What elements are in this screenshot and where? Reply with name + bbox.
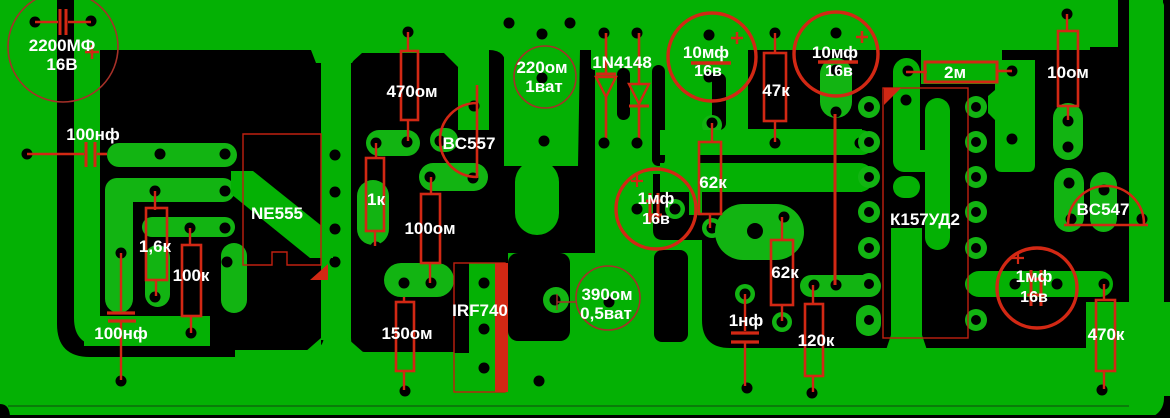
svg-text:10мф: 10мф [683, 43, 729, 62]
wire R12 lead [557, 301, 576, 303]
IRF740 pad column [469, 263, 502, 392]
10mf cap column trace [820, 58, 852, 118]
svg-text:150ом: 150ом [381, 324, 432, 343]
BC557 pad e trace [430, 128, 458, 152]
wire R4 top lead [375, 143, 377, 159]
diode D2 cathode bar [629, 105, 649, 108]
pad hole on pour at 509,23 [504, 18, 515, 29]
trace between 100om and 150om [384, 263, 454, 297]
capacitor C6 1mf outline [616, 169, 696, 249]
svg-text:62к: 62к [771, 263, 799, 282]
pad hole on pour at 539,381 [534, 376, 545, 387]
plus mark C5 [856, 31, 868, 43]
pad hole 1mf right [670, 204, 681, 215]
transistor Q2 IRF740 outline [454, 263, 505, 392]
pad hole 1.6k bottom [150, 292, 161, 303]
wire R8 top lead [774, 33, 776, 54]
wire R13 right lead [997, 70, 1012, 73]
wire C1 left lead [35, 21, 58, 23]
pad hole on pour at 35,22 [30, 17, 41, 28]
resistor R15 470k body [1096, 300, 1115, 371]
etched slot right of diode D2 [652, 65, 665, 166]
svg-text:47к: 47к [762, 81, 790, 100]
pad hole 10om bottom 2 [1063, 142, 1074, 153]
diode D2 triangle [629, 84, 649, 104]
pad hole row right [866, 280, 877, 291]
trace row above 120k [800, 275, 881, 297]
plus mark C4 [731, 32, 743, 44]
wire C7 top lead [744, 294, 746, 331]
svg-text:10мф: 10мф [812, 43, 858, 62]
K157UD2 right pad 2 [965, 131, 987, 153]
IRF740 pad 2 [479, 324, 490, 335]
pad hole 1k bottom [371, 242, 382, 253]
pad hole on pour at 836,33 [831, 28, 842, 39]
K157UD2 right pad 4 [965, 201, 987, 223]
R12 lead mark [556, 294, 558, 310]
wire R5 top lead [430, 177, 432, 195]
pad disc 62k top [702, 115, 722, 135]
wire R14 bottom lead [1067, 106, 1069, 120]
wire R9 bottom lead [709, 214, 711, 228]
wire R5 bottom lead [429, 263, 431, 283]
pad hole blob bottom [1007, 134, 1018, 145]
pad hole on L [150, 186, 161, 197]
BC557 pad e hole [435, 136, 446, 147]
K157UD2 pin1 triangle marker [884, 88, 901, 105]
wire D2 top lead [638, 33, 641, 84]
NE555 pad 2 [330, 187, 341, 198]
trace stub under 1.6k [145, 245, 170, 307]
pad hole 1nf top [740, 289, 751, 300]
svg-text:100ом: 100ом [404, 219, 455, 238]
capacitor C1 plate 2 [65, 9, 68, 35]
pad hole on pour at 405,391 [400, 386, 411, 397]
K157UD2 right pad 6 [965, 273, 987, 295]
etched channel left stripe and bottom band [57, 0, 235, 357]
BC557 pad b [425, 172, 436, 183]
svg-text:16в: 16в [825, 63, 853, 80]
pad hole 120k top [809, 280, 820, 291]
pad hole on elbow [222, 257, 233, 268]
trace column under K157UD2 [891, 228, 922, 338]
wire R2 bottom lead [190, 316, 192, 333]
pad hole 1mf#2 left [1010, 279, 1021, 290]
trace at 1k top [366, 130, 420, 156]
K157UD2 left pad 6 [858, 273, 880, 295]
pad hole S3 right [220, 223, 231, 234]
wire R11 top lead [812, 285, 814, 305]
etched region around 120k and 1nf [702, 192, 884, 348]
plus mark C1 [85, 45, 99, 59]
capacitor C1 plate 1 [59, 9, 62, 35]
svg-text:К157УД2: К157УД2 [890, 210, 960, 229]
svg-text:62к: 62к [699, 173, 727, 192]
board bottom left corner [0, 404, 10, 418]
K157UD2 left pad 4 [858, 201, 880, 223]
pad hole 150om top [399, 278, 410, 289]
capacitor C4 10mf outline [668, 13, 756, 101]
pad hole 62k#2 bottom [777, 317, 788, 328]
K157UD2 left pad 2 [858, 131, 880, 153]
wire C3 bottom lead [120, 322, 122, 380]
trace row S1 [107, 143, 237, 167]
pad hole band A right [855, 138, 866, 149]
board bottom right corner [1150, 396, 1170, 418]
wire R10 top lead [781, 217, 783, 241]
svg-text:100к: 100к [173, 266, 210, 285]
pad hole 1mf left [632, 204, 643, 215]
pad hole 100k bottom [186, 328, 197, 339]
pad hole 2m left [903, 66, 914, 77]
wire R15 bottom lead [1103, 371, 1105, 389]
resistor R8 47k body [764, 53, 786, 121]
pad hole on strip above BC557 [469, 101, 480, 112]
capacitor C8 1mf outline [997, 248, 1077, 328]
svg-text:120к: 120к [798, 331, 835, 350]
etched slot under diode D1 [582, 68, 595, 142]
svg-text:BC557: BC557 [443, 134, 496, 153]
pad hole D2 bottom [632, 138, 643, 149]
pad hole 1k top [371, 138, 382, 149]
etched region around 220om column [458, 70, 595, 253]
svg-text:390ом: 390ом [581, 285, 632, 304]
capacitor C5 10mf outline [794, 12, 878, 96]
etched slot between bands [700, 155, 874, 164]
resistor R4 1k body [366, 158, 384, 231]
wire from C5 to 120k row [834, 114, 837, 285]
svg-text:16В: 16В [46, 55, 77, 74]
svg-text:2м: 2м [944, 63, 966, 82]
trace pedestal to pour [884, 335, 929, 356]
C5 divider bar [818, 60, 858, 63]
pad hole 100k top [185, 223, 196, 234]
10om bottom trace [1053, 103, 1083, 160]
resistor R12 390om outline circle [576, 266, 640, 330]
NE555 pin1 triangle marker [310, 264, 328, 280]
svg-text:0,5ват: 0,5ват [580, 304, 632, 323]
svg-text:1нф: 1нф [729, 311, 764, 330]
svg-text:BC547: BC547 [1077, 200, 1130, 219]
wire R14 top lead [1066, 14, 1068, 32]
K157UD2 left pad 3 [858, 166, 880, 188]
wire R1 bottom lead [155, 280, 157, 296]
svg-text:220ом: 220ом [516, 58, 567, 77]
resistor R2 100k body [182, 245, 201, 316]
trace L vertical arm [105, 178, 133, 313]
wire R1 top lead [154, 191, 156, 210]
wire R11 bottom lead [812, 376, 814, 392]
right vertical trace column [1129, 0, 1164, 412]
K157UD2 right pad 5 [965, 237, 987, 259]
pad hole 47k bottom [770, 138, 781, 149]
plus mark C6 [631, 175, 643, 187]
resistor R14 10om body [1058, 31, 1078, 106]
etched region around 470om and BC557 [351, 53, 595, 352]
transistor Q3 BC547 outline [1064, 186, 1148, 225]
capacitor C1 2200MF outline circle [8, 0, 118, 102]
pad hole on pour at 709,35 [704, 30, 715, 41]
wire R8 bottom lead [774, 121, 776, 142]
svg-text:1,6к: 1,6к [139, 237, 172, 256]
wire D1 bottom lead [605, 97, 608, 142]
IC trace column 2 [925, 98, 950, 250]
pad hole on pour at 408,32 [403, 27, 414, 38]
big via hole [747, 223, 763, 239]
capacitor C3 plate 2 [108, 319, 136, 322]
band trace A [700, 130, 874, 155]
green strip above bottom band [84, 316, 210, 346]
svg-text:470к: 470к [1088, 325, 1125, 344]
svg-text:1мф: 1мф [1016, 267, 1053, 286]
capacitor C7 plate 2 [731, 340, 759, 343]
C8 polarity bars [1027, 270, 1045, 306]
diode D1 cathode bar [596, 73, 616, 76]
IC trace square [893, 176, 920, 198]
svg-text:2200МФ: 2200МФ [29, 36, 96, 55]
svg-text:10ом: 10ом [1047, 63, 1089, 82]
wire R6 top lead [403, 297, 405, 303]
capacitor C2 plate 1 [85, 142, 88, 167]
pad hole on pour at 747,388 [742, 383, 753, 394]
svg-text:NE555: NE555 [251, 204, 303, 223]
resistor R7 220om outline circle [514, 46, 576, 108]
pad hole long wire bottom [831, 280, 842, 291]
NE555 pad 3 [330, 224, 341, 235]
pad hole on pour at 27,154 [22, 149, 33, 160]
K157UD2 right pad 3 [965, 166, 987, 188]
NE555 pad 4 [330, 257, 341, 268]
pad hole 220om bottom [539, 136, 550, 147]
K157UD2 left pad 7 [858, 309, 880, 331]
etched slot left of 220om column [489, 50, 506, 167]
trace blob under 1k [357, 180, 389, 245]
wire D2 bottom lead [638, 106, 641, 142]
pad hole stub [864, 315, 875, 326]
pad hole [1064, 178, 1075, 189]
pad hole 10om bottom 1 [1063, 116, 1074, 127]
IC trace column 1 [893, 58, 920, 172]
pad hole on pour at 637,33 [632, 28, 643, 39]
svg-text:16в: 16в [694, 63, 722, 80]
svg-text:16в: 16в [1020, 289, 1048, 306]
trace elbow right [221, 243, 247, 313]
pad hole 62k#2 top [779, 212, 790, 223]
etched region right of 390om [654, 250, 688, 342]
pad hole 2m right [1007, 66, 1018, 77]
trace row L horizontal [105, 178, 235, 202]
capacitor C7 plate 1 [731, 331, 759, 334]
trace blob with via [715, 204, 804, 260]
pad hole 62k top [707, 118, 718, 129]
pad hole 10mf#2 plus [831, 65, 842, 76]
pad hole on L right [220, 186, 231, 197]
BC547 middle trace [1090, 172, 1117, 232]
trace blob right of 2m [988, 60, 1035, 172]
wire C1 right lead [68, 21, 91, 23]
wire C3 top lead [120, 253, 122, 311]
resistor R13 2m body [925, 62, 997, 82]
pad hole 10mf#2 minus [831, 107, 842, 118]
wire R9 top lead [711, 123, 713, 143]
C4 divider bar [691, 61, 731, 64]
wire R13 left lead [906, 71, 927, 74]
wire C2 right lead [97, 153, 107, 156]
pad hole on pour at 91,21 [86, 16, 97, 27]
pad disc 62k#2 bottom [772, 312, 792, 332]
resistor R6 150om body [396, 302, 414, 371]
C6 polarity bars [646, 193, 662, 223]
trace row S3 [142, 217, 235, 237]
trace stub right [856, 305, 881, 336]
etched area inside IRF740 box left [454, 253, 469, 353]
band trace B [700, 163, 874, 192]
etched region left of 390om [508, 253, 570, 341]
BC547 pad c [1137, 214, 1148, 225]
resistor R9 62k body [699, 142, 721, 214]
IRF740 pad 1 [479, 278, 490, 289]
svg-text:IRF740: IRF740 [452, 301, 508, 320]
column base flare left [305, 338, 321, 352]
wire R2 top lead [189, 228, 191, 245]
column base flare right [347, 338, 363, 352]
etched region around 62k resistor R8 [653, 174, 745, 240]
wire C2 left lead [27, 153, 84, 156]
pad hole on pour at 775,33 [770, 28, 781, 39]
board bottom shadow line [8, 405, 1170, 407]
K157UD2 left pad 1 [858, 96, 880, 118]
wire R10 bottom lead [781, 305, 783, 321]
pad hole on pour at 609,302 [604, 297, 615, 308]
wire C7 bottom lead [744, 342, 746, 386]
IC trace foot [893, 150, 950, 172]
pad hole on S1 right [220, 149, 231, 160]
etched region around NE555 [100, 50, 324, 350]
plus mark C8 [1012, 252, 1024, 264]
svg-text:1к: 1к [367, 190, 385, 209]
diode D1 triangle [596, 77, 616, 97]
pad bay in etched region [543, 287, 569, 313]
etched strip left of diode D1 [578, 50, 591, 142]
NE555 diagonal trace [231, 171, 333, 258]
resistor R1 1.6k body [146, 208, 167, 280]
svg-text:100нф: 100нф [66, 125, 120, 144]
pad hole 470k top [1099, 279, 1110, 290]
IRF740 pad 3 [479, 363, 490, 374]
NE555 pad 1 [330, 150, 341, 161]
pad hole on pour at 1067,14 [1062, 9, 1073, 20]
BC557 pad trace [419, 163, 488, 191]
wire R6 bottom lead [403, 371, 405, 390]
etched slot right of cap C3 column [712, 73, 726, 130]
pad hole 220om middle [537, 73, 548, 84]
pad hole on pour at 709,77 [704, 72, 715, 83]
wire D1 top lead [605, 33, 608, 74]
capacitor C2 plate 2 [94, 142, 97, 167]
svg-text:16в: 16в [642, 211, 670, 228]
pad hole 62k bottom [707, 223, 718, 234]
220om column trace [504, 50, 580, 166]
NE555 pin column trace [311, 50, 360, 340]
pad disc 1nf top [735, 284, 755, 304]
pad hole 100om bottom [426, 278, 437, 289]
etched band around 47k [748, 50, 921, 129]
resistor R11 120k body [805, 304, 823, 376]
pad hole D1 bottom [599, 138, 610, 149]
pad hole on pour at 542,34 [537, 29, 548, 40]
pad disc 1mf right [665, 199, 685, 219]
K157UD2 left pad 5 [858, 237, 880, 259]
pad hole on pour at 570,23 [565, 18, 576, 29]
svg-text:1мф: 1мф [638, 189, 675, 208]
pad hole 100nf top [116, 248, 127, 259]
capacitor C3 plate 1 [107, 311, 135, 314]
pad hole on pour at 1102,390 [1097, 385, 1108, 396]
svg-text:1ват: 1ват [525, 77, 562, 96]
BC547 pad b [1099, 185, 1110, 196]
op-amp U1 NE555 outline [243, 134, 321, 265]
220om column lower part [515, 160, 559, 235]
resistor R10 62k body [771, 240, 793, 305]
IRF740 tab thick bar [495, 263, 508, 392]
trace to BC547 left [1054, 168, 1084, 232]
resistor R5 100om body [421, 194, 440, 263]
board bottom edge [0, 415, 1170, 418]
pad hole on pour at 812,393 [807, 388, 818, 399]
K157UD2 right pad 1 [965, 96, 987, 118]
pad hole on pour at 555,300 [550, 295, 561, 306]
pad hole 1mf#2 right [1052, 279, 1063, 290]
wire R15 top lead [1103, 284, 1105, 301]
resistor R3 470om body [401, 51, 418, 120]
etched strip right edge [1163, 0, 1170, 302]
pad disc 62k bottom [702, 218, 722, 238]
wire R3 bottom lead [407, 120, 409, 141]
wire R4 bottom lead [374, 231, 376, 246]
band trace to 470k [966, 271, 1113, 297]
svg-text:470ом: 470ом [386, 82, 437, 101]
svg-text:100нф: 100нф [94, 324, 148, 343]
op-amp U2 K157UD2 outline [883, 88, 968, 338]
pad hole band B right [861, 175, 872, 186]
pad hole on S1 [155, 149, 166, 160]
etched slot between diodes [617, 68, 630, 120]
transistor Q1 BC557 outline [440, 85, 477, 178]
pad hole 2m column lower [901, 95, 912, 106]
K157UD2 right pad 7 [965, 309, 987, 331]
wire R3 top lead [407, 32, 409, 52]
BC557 pad c [468, 173, 479, 184]
svg-text:1N4148: 1N4148 [592, 53, 652, 72]
etched region around K157UD2 [862, 0, 1129, 348]
BC547 pad e [1066, 214, 1077, 225]
pad hole on pour at 121,381 [116, 376, 127, 387]
pad hole 470om bottom [402, 137, 413, 148]
pad hole on pour at 604,33 [599, 28, 610, 39]
